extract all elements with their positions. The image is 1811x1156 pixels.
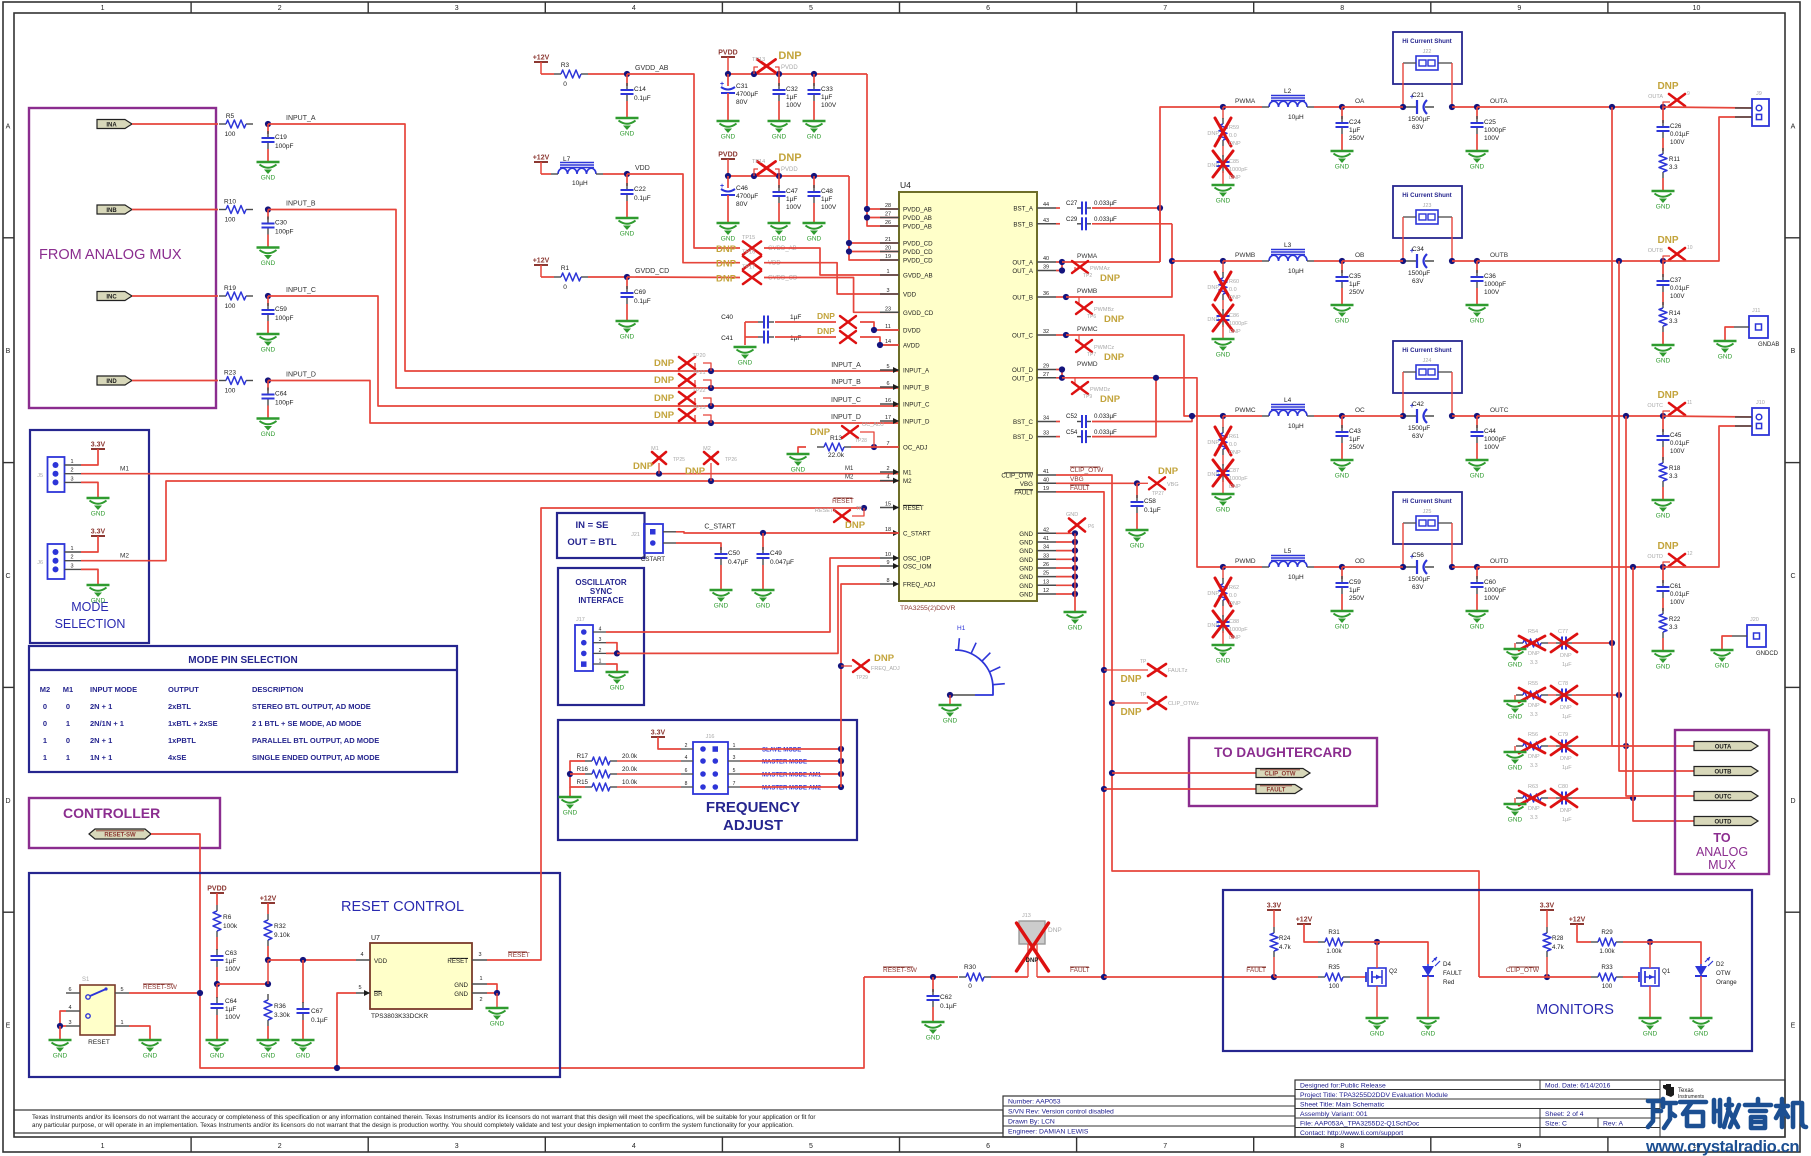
- svg-text:1: 1: [66, 753, 70, 762]
- svg-text:DNP: DNP: [1657, 235, 1678, 246]
- svg-text:PVDD: PVDD: [207, 886, 226, 893]
- MONITORS box: [1223, 890, 1752, 1051]
- svg-text:PWMA: PWMA: [1235, 98, 1256, 105]
- U4 pin 23 GVDD_CD: [880, 311, 899, 313]
- svg-text:J11: J11: [1752, 308, 1760, 314]
- svg-text:TP15: TP15: [742, 235, 755, 241]
- DNP testpoint CLIP_OTWz: [1112, 702, 1148, 704]
- svg-text:GND: GND: [210, 1053, 225, 1060]
- svg-text:63V: 63V: [1412, 124, 1424, 131]
- svg-text:33: 33: [1043, 553, 1049, 559]
- capacitor C52 0.033uF on BST_C: [1056, 421, 1060, 423]
- svg-text:OUTPUT: OUTPUT: [168, 685, 199, 694]
- svg-text:8: 8: [1340, 5, 1344, 12]
- svg-text:GND: GND: [1656, 513, 1671, 520]
- wire J21 pin1 to C_START: [676, 532, 899, 533]
- DNP jumper TP23 on INPUT_D: [708, 420, 714, 426]
- svg-text:1: 1: [66, 719, 70, 728]
- svg-text:0: 0: [66, 702, 70, 711]
- svg-text:U7: U7: [371, 935, 380, 942]
- svg-text:M1: M1: [903, 470, 912, 477]
- svg-text:100V: 100V: [821, 102, 837, 109]
- svg-text:GND: GND: [1370, 1031, 1385, 1038]
- wire D2 to GND: [1700, 976, 1702, 1018]
- svg-text:11: 11: [1687, 400, 1692, 406]
- svg-text:TP27: TP27: [1152, 491, 1164, 497]
- svg-text:3: 3: [886, 288, 889, 294]
- svg-text:2: 2: [479, 997, 482, 1003]
- svg-text:TO DAUGHTERCARD: TO DAUGHTERCARD: [1214, 745, 1352, 760]
- wire INC to R19: [132, 295, 218, 297]
- resistor R5 100: [219, 123, 226, 125]
- svg-text:0: 0: [968, 983, 972, 990]
- svg-text:DNP: DNP: [1560, 808, 1572, 814]
- svg-text:9: 9: [886, 560, 889, 566]
- svg-text:R22: R22: [1669, 616, 1681, 623]
- connector J21 CSTART: [644, 524, 663, 553]
- svg-text:VBG: VBG: [1070, 476, 1084, 483]
- svg-text:OSCILLATOR: OSCILLATOR: [575, 578, 626, 587]
- transistor Q2: [1368, 968, 1386, 986]
- DNP resistor R63 3.3: [1514, 798, 1516, 804]
- svg-text:C41: C41: [721, 335, 733, 342]
- svg-text:10.0k: 10.0k: [622, 779, 638, 786]
- node OUTD tap: [1630, 564, 1636, 570]
- svg-text:H1: H1: [957, 625, 966, 632]
- svg-text:OUTD: OUTD: [1490, 558, 1509, 565]
- svg-text:PVDD_AB: PVDD_AB: [903, 215, 932, 222]
- wire 3.3V to J16 pin2: [658, 737, 681, 749]
- svg-text:FAULT: FAULT: [1070, 485, 1090, 492]
- svg-text:AVDD: AVDD: [903, 343, 920, 350]
- svg-text:TP13: TP13: [752, 57, 765, 63]
- node PWMB channel: [1220, 258, 1226, 264]
- svg-text:1: 1: [120, 1020, 123, 1026]
- tag OUTA: [1694, 742, 1758, 751]
- svg-text:2: 2: [886, 466, 889, 472]
- svg-text:RESET: RESET: [508, 952, 530, 959]
- U4 pin 18 C_START: [880, 532, 899, 534]
- svg-text:INPUT_A: INPUT_A: [286, 115, 316, 122]
- svg-text:C34: C34: [1412, 246, 1424, 253]
- svg-text:DNP: DNP: [1229, 450, 1241, 456]
- capacitor C30 100pF: [267, 210, 269, 220]
- wire J6 pin3 to GND: [81, 569, 98, 585]
- wire OSC_IOP to IC: [606, 558, 880, 632]
- svg-text:DNP: DNP: [1207, 472, 1219, 478]
- svg-text:8: 8: [685, 781, 688, 787]
- svg-text:0.0: 0.0: [1229, 593, 1237, 599]
- svg-text:C49: C49: [770, 550, 782, 557]
- svg-text:RESET: RESET: [447, 958, 468, 965]
- svg-text:1.00k: 1.00k: [1599, 948, 1615, 955]
- svg-text:Hi Current Shunt: Hi Current Shunt: [1402, 38, 1452, 45]
- svg-text:C33: C33: [821, 86, 833, 93]
- svg-text:1: 1: [43, 736, 47, 745]
- svg-text:5: 5: [733, 768, 736, 774]
- svg-text:26: 26: [1043, 562, 1049, 568]
- svg-text:OUT_A: OUT_A: [1012, 260, 1034, 267]
- U4 pin 15 RESET: [880, 507, 899, 509]
- svg-text:4700µF: 4700µF: [736, 193, 758, 200]
- svg-text:0.1µF: 0.1µF: [311, 1017, 328, 1024]
- svg-text:250V: 250V: [1349, 135, 1365, 142]
- svg-text:INPUT_D: INPUT_D: [831, 414, 861, 421]
- ground below C22: [616, 217, 639, 219]
- U4 pin 8 FREQ_ADJ: [880, 583, 899, 585]
- svg-text:R35: R35: [1328, 964, 1340, 971]
- DNP testpoint TP6 on OUT_B: [1078, 297, 1080, 305]
- svg-text:4: 4: [632, 1143, 636, 1150]
- svg-text:PWMCz: PWMCz: [1094, 345, 1114, 351]
- svg-text:R11: R11: [1669, 156, 1680, 163]
- svg-text:TO: TO: [1713, 831, 1730, 845]
- node PWMD channel: [1220, 564, 1226, 570]
- svg-text:DNP: DNP: [1657, 390, 1678, 401]
- svg-text:1: 1: [43, 753, 47, 762]
- svg-text:0.033µF: 0.033µF: [1094, 216, 1117, 223]
- ground below C49: [752, 589, 775, 591]
- svg-text:DNP: DNP: [1207, 163, 1219, 169]
- svg-text:A: A: [6, 123, 11, 130]
- svg-text:R17: R17: [577, 753, 589, 760]
- svg-text:R14: R14: [1669, 310, 1681, 317]
- svg-text:BST_D: BST_D: [1013, 434, 1033, 441]
- svg-text:RESET CONTROL: RESET CONTROL: [341, 899, 464, 915]
- svg-text:PVDD: PVDD: [718, 152, 737, 159]
- svg-text:TP29: TP29: [856, 675, 868, 681]
- svg-text:GND: GND: [1470, 624, 1485, 631]
- wire FAULT down right side: [1056, 492, 1104, 977]
- wire OUT_C to PWMC: [1056, 334, 1066, 336]
- svg-text:2xBTL: 2xBTL: [168, 702, 191, 711]
- svg-text:Contact: http://www.ti.com/sup: Contact: http://www.ti.com/support: [1300, 1130, 1403, 1137]
- node OC_ADJ: [871, 444, 877, 450]
- svg-text:DNP: DNP: [1229, 329, 1241, 335]
- svg-text:GND: GND: [1335, 318, 1350, 325]
- svg-text:0: 0: [563, 81, 567, 88]
- ground below C32: [768, 120, 791, 122]
- wire PWMC to inductor L4: [1223, 415, 1262, 417]
- svg-text:GND: GND: [1130, 543, 1145, 550]
- svg-text:100V: 100V: [225, 966, 241, 973]
- svg-text:MODE PIN SELECTION: MODE PIN SELECTION: [188, 655, 297, 666]
- svg-text:10µH: 10µH: [1288, 268, 1304, 275]
- ground below C25: [1466, 150, 1489, 152]
- svg-text:GND: GND: [1470, 473, 1485, 480]
- svg-text:GND: GND: [563, 810, 578, 817]
- svg-text:0.033µF: 0.033µF: [1094, 200, 1117, 207]
- ground below C40/C41: [734, 346, 757, 348]
- ground below C87: [1212, 493, 1235, 495]
- capacitor C54 0.033uF on BST_D: [1056, 436, 1060, 438]
- svg-text:1: 1: [101, 5, 105, 12]
- svg-text:C42: C42: [1412, 401, 1424, 408]
- LED D4: [1422, 966, 1434, 976]
- inductor L2 10uH: [1271, 95, 1305, 97]
- node OUTB tap: [1616, 258, 1622, 264]
- power flag 3.3V for J6: [91, 535, 105, 537]
- svg-text:44: 44: [1043, 202, 1049, 208]
- U4 pin 19 PVDD_CD: [880, 259, 899, 261]
- wire R left commons to GND: [570, 761, 585, 787]
- svg-text:FAULT: FAULT: [1267, 788, 1286, 794]
- node INPUT_D: [265, 377, 271, 383]
- svg-text:CLIP_OTW: CLIP_OTW: [1070, 467, 1104, 474]
- svg-text:TP23: TP23: [692, 405, 705, 411]
- resistor R24 4.7k: [1273, 910, 1275, 927]
- svg-text:R61: R61: [1229, 434, 1239, 440]
- LED D2: [1695, 966, 1707, 976]
- svg-text:VBG: VBG: [1167, 482, 1179, 488]
- svg-text:GND: GND: [721, 236, 736, 243]
- svg-text:+12V: +12V: [1296, 917, 1313, 924]
- svg-text:PARALLEL BTL OUTPUT, AD MODE: PARALLEL BTL OUTPUT, AD MODE: [252, 736, 379, 745]
- svg-text:DNP: DNP: [1100, 394, 1121, 405]
- svg-text:GND: GND: [791, 467, 806, 474]
- Hi Current Shunt box J24: [1393, 341, 1462, 393]
- node C_START: [760, 530, 766, 536]
- svg-text:GND: GND: [143, 1053, 158, 1060]
- svg-text:GND: GND: [807, 236, 822, 243]
- svg-text:R19: R19: [224, 285, 236, 292]
- svg-text:OSC_IOM: OSC_IOM: [903, 564, 932, 571]
- svg-text:C63: C63: [225, 950, 237, 957]
- svg-text:Red: Red: [1443, 979, 1455, 986]
- U4 pin 1 GVDD_AB: [880, 274, 899, 276]
- connector J20 GNDCD: [1747, 625, 1766, 647]
- svg-text:C45: C45: [1670, 432, 1682, 439]
- svg-text:CLIP_OTWz: CLIP_OTWz: [1168, 701, 1199, 707]
- svg-text:DNP: DNP: [1560, 756, 1572, 762]
- resistor R32 9.10k: [267, 903, 269, 914]
- svg-text:OC_ADJ: OC_ADJ: [903, 445, 927, 452]
- svg-text:E: E: [6, 1023, 11, 1030]
- svg-text:100V: 100V: [1484, 135, 1500, 142]
- svg-text:GND: GND: [1019, 583, 1033, 590]
- svg-text:4.7k: 4.7k: [1279, 944, 1292, 951]
- svg-text:0.47µF: 0.47µF: [728, 559, 748, 566]
- ground at R13: [798, 447, 806, 454]
- svg-text:16: 16: [885, 398, 891, 404]
- DNP testpoint TP28 on OC_ADJ: [860, 432, 874, 447]
- svg-text:100: 100: [1602, 983, 1613, 990]
- svg-text:DNP: DNP: [817, 311, 835, 321]
- svg-text:GND: GND: [1019, 566, 1033, 573]
- svg-text:2 1 BTL + SE MODE, AD MODE: 2 1 BTL + SE MODE, AD MODE: [252, 719, 361, 728]
- svg-text:3.3V: 3.3V: [91, 529, 106, 536]
- svg-text:DNP: DNP: [654, 393, 675, 404]
- resistor R19 100: [219, 295, 226, 297]
- svg-text:0.01µF: 0.01µF: [1670, 440, 1690, 447]
- wire OUT_D pins to PWMD: [1056, 370, 1062, 378]
- svg-text:INC: INC: [106, 295, 117, 301]
- svg-text:100pF: 100pF: [275, 143, 293, 150]
- wire M2 to IC: [81, 481, 899, 561]
- DNP jumper TP16 on VDD: [743, 256, 761, 269]
- svg-text:GND: GND: [772, 134, 787, 141]
- watermark crystalradio logo: [1648, 1099, 1676, 1128]
- svg-text:GND: GND: [53, 1053, 68, 1060]
- wire C34 to OUTB: [1452, 260, 1477, 262]
- svg-text:+: +: [720, 183, 724, 190]
- resistor R23 100: [219, 380, 226, 382]
- svg-text:7: 7: [1163, 5, 1167, 12]
- svg-text:0.047µF: 0.047µF: [770, 559, 794, 566]
- svg-text:DNP: DNP: [1207, 131, 1219, 137]
- svg-text:C78: C78: [1558, 681, 1568, 687]
- svg-text:1000pF: 1000pF: [1229, 476, 1248, 482]
- svg-text:R31: R31: [1328, 929, 1340, 936]
- svg-text:+12V: +12V: [533, 155, 550, 162]
- svg-text:33: 33: [1043, 431, 1049, 437]
- svg-text:8: 8: [1340, 1143, 1344, 1150]
- svg-text:0.01µF: 0.01µF: [1670, 285, 1690, 292]
- ground freq adjust: [559, 796, 582, 798]
- wire J16 right pins common to FREQ_ADJ: [740, 748, 841, 750]
- svg-text:D4: D4: [1443, 961, 1451, 968]
- node INPUT_B: [265, 206, 271, 212]
- power flag 3.3V CLIP_OTW: [1540, 909, 1554, 911]
- ground below C64: [206, 1039, 229, 1041]
- wire INPUT_A to IC: [268, 124, 899, 371]
- svg-text:7: 7: [1163, 1143, 1167, 1150]
- svg-text:29: 29: [1043, 364, 1049, 370]
- svg-text:GND: GND: [1470, 164, 1485, 171]
- svg-text:Assembly Variant: 001: Assembly Variant: 001: [1300, 1111, 1368, 1118]
- DNP capacitor C77 1uF: [1548, 642, 1556, 644]
- svg-text:0.0: 0.0: [1229, 287, 1237, 293]
- wire OUTB riser to J9 pin2: [1663, 117, 1752, 261]
- ground below C58: [1126, 529, 1149, 531]
- svg-text:C44: C44: [1484, 428, 1496, 435]
- ground at S1 left: [49, 1039, 72, 1041]
- wire IND to R23: [132, 380, 218, 382]
- svg-text:2: 2: [70, 555, 73, 561]
- svg-text:TP9: TP9: [1083, 394, 1092, 400]
- wire OUTD riser to J10 pin2: [1663, 426, 1752, 567]
- svg-text:4xSE: 4xSE: [168, 753, 186, 762]
- svg-text:GND: GND: [1019, 531, 1033, 538]
- wire Q1 source to GND: [1649, 986, 1651, 1018]
- ground below D4: [1417, 1017, 1440, 1019]
- svg-text:13: 13: [1043, 579, 1049, 585]
- svg-text:26: 26: [885, 220, 891, 226]
- svg-text:19: 19: [885, 254, 891, 260]
- U4 pin 33 BST_D: [1037, 436, 1056, 438]
- svg-text:0.1µF: 0.1µF: [634, 195, 651, 202]
- svg-text:63V: 63V: [1412, 278, 1424, 285]
- svg-text:PWMC: PWMC: [1235, 407, 1256, 414]
- ground below U4: [1064, 611, 1087, 613]
- wire RESET-SW rail: [864, 976, 958, 978]
- svg-text:GND: GND: [1216, 658, 1231, 665]
- svg-text:0.1µF: 0.1µF: [634, 298, 651, 305]
- svg-text:GNDAB: GNDAB: [1758, 342, 1779, 348]
- ground below J17: [606, 671, 629, 673]
- wire OUTD bundle: [1633, 567, 1694, 821]
- svg-text:100V: 100V: [1484, 289, 1500, 296]
- svg-text:17: 17: [885, 415, 891, 421]
- wire R31 to LED D4: [1377, 942, 1428, 964]
- power flag 3.3V freq: [651, 736, 665, 738]
- wire FAULT to daughtercard tag: [1101, 786, 1107, 792]
- svg-text:DNP: DNP: [1229, 175, 1241, 181]
- svg-text:GND: GND: [1508, 662, 1523, 669]
- power flag +12V: [534, 61, 548, 63]
- resistor R29 1.00k: [1577, 924, 1591, 942]
- ground below C62: [922, 1021, 945, 1023]
- svg-text:S1: S1: [82, 977, 90, 983]
- svg-text:DNP: DNP: [845, 520, 866, 531]
- TI logo: [1663, 1084, 1674, 1097]
- svg-text:L2: L2: [1284, 88, 1292, 95]
- svg-text:M1: M1: [845, 466, 854, 472]
- svg-text:GVDD_AB: GVDD_AB: [903, 273, 933, 280]
- U4 pin 2 M1: [880, 471, 899, 473]
- svg-text:R16: R16: [577, 766, 589, 773]
- capacitor C37 0.01uF 100V: [1662, 261, 1664, 277]
- svg-text:4: 4: [360, 952, 363, 958]
- wire shunt J24 to rail: [1402, 372, 1404, 416]
- svg-text:100V: 100V: [786, 204, 802, 211]
- svg-text:M2: M2: [703, 446, 711, 452]
- svg-text:DNP: DNP: [1158, 466, 1179, 477]
- wire VDD to DNP jumper: [627, 174, 740, 263]
- svg-text:C62: C62: [940, 994, 952, 1001]
- svg-text:C26: C26: [1670, 123, 1682, 130]
- svg-text:R3: R3: [561, 62, 570, 69]
- svg-text:39: 39: [1043, 265, 1049, 271]
- connector J11 GNDAB: [1749, 316, 1768, 338]
- wire PWMA riser to channel A: [1160, 107, 1223, 262]
- tag OUTC: [1694, 792, 1758, 801]
- node VDD U7: [265, 957, 271, 963]
- U4 pin 19 FAULT: [1037, 491, 1056, 493]
- svg-text:OUTA: OUTA: [1648, 94, 1663, 100]
- svg-text:INPUT MODE: INPUT MODE: [90, 685, 137, 694]
- svg-text:4: 4: [886, 475, 889, 481]
- ground below C19: [257, 161, 280, 163]
- node FAULT testpoint row: [1101, 667, 1107, 673]
- svg-text:DNP: DNP: [778, 50, 801, 62]
- svg-text:1: 1: [479, 976, 482, 982]
- ground below C36: [1466, 304, 1489, 306]
- svg-text:80V: 80V: [736, 201, 748, 208]
- node C62: [930, 974, 936, 980]
- wire Q1 drain: [1649, 942, 1651, 968]
- capacitor C43 1uF 250V: [1341, 416, 1343, 428]
- svg-text:0: 0: [43, 719, 47, 728]
- capacitor C27 0.033uF on BST_A: [1056, 207, 1060, 209]
- svg-text:6: 6: [986, 1143, 990, 1150]
- resistor R6 100k: [216, 893, 218, 905]
- node FAULT monitors: [1101, 974, 1107, 980]
- wire PVDD rail to IC pins: [849, 176, 899, 260]
- svg-text:OUT = BTL: OUT = BTL: [567, 537, 617, 548]
- svg-text:100pF: 100pF: [275, 315, 293, 322]
- ground below C59: [257, 333, 280, 335]
- svg-text:0.1µF: 0.1µF: [634, 95, 651, 102]
- svg-text:100V: 100V: [786, 102, 802, 109]
- ground at R63: [1504, 803, 1527, 805]
- wire GVDD_AB to IC pin: [764, 248, 899, 275]
- svg-text:PVDD_CD: PVDD_CD: [903, 258, 933, 265]
- svg-text:GND: GND: [721, 134, 736, 141]
- FREQUENCY ADJUST box: [558, 720, 857, 840]
- ground below C31: [717, 120, 740, 122]
- wire INB to R10: [132, 209, 218, 211]
